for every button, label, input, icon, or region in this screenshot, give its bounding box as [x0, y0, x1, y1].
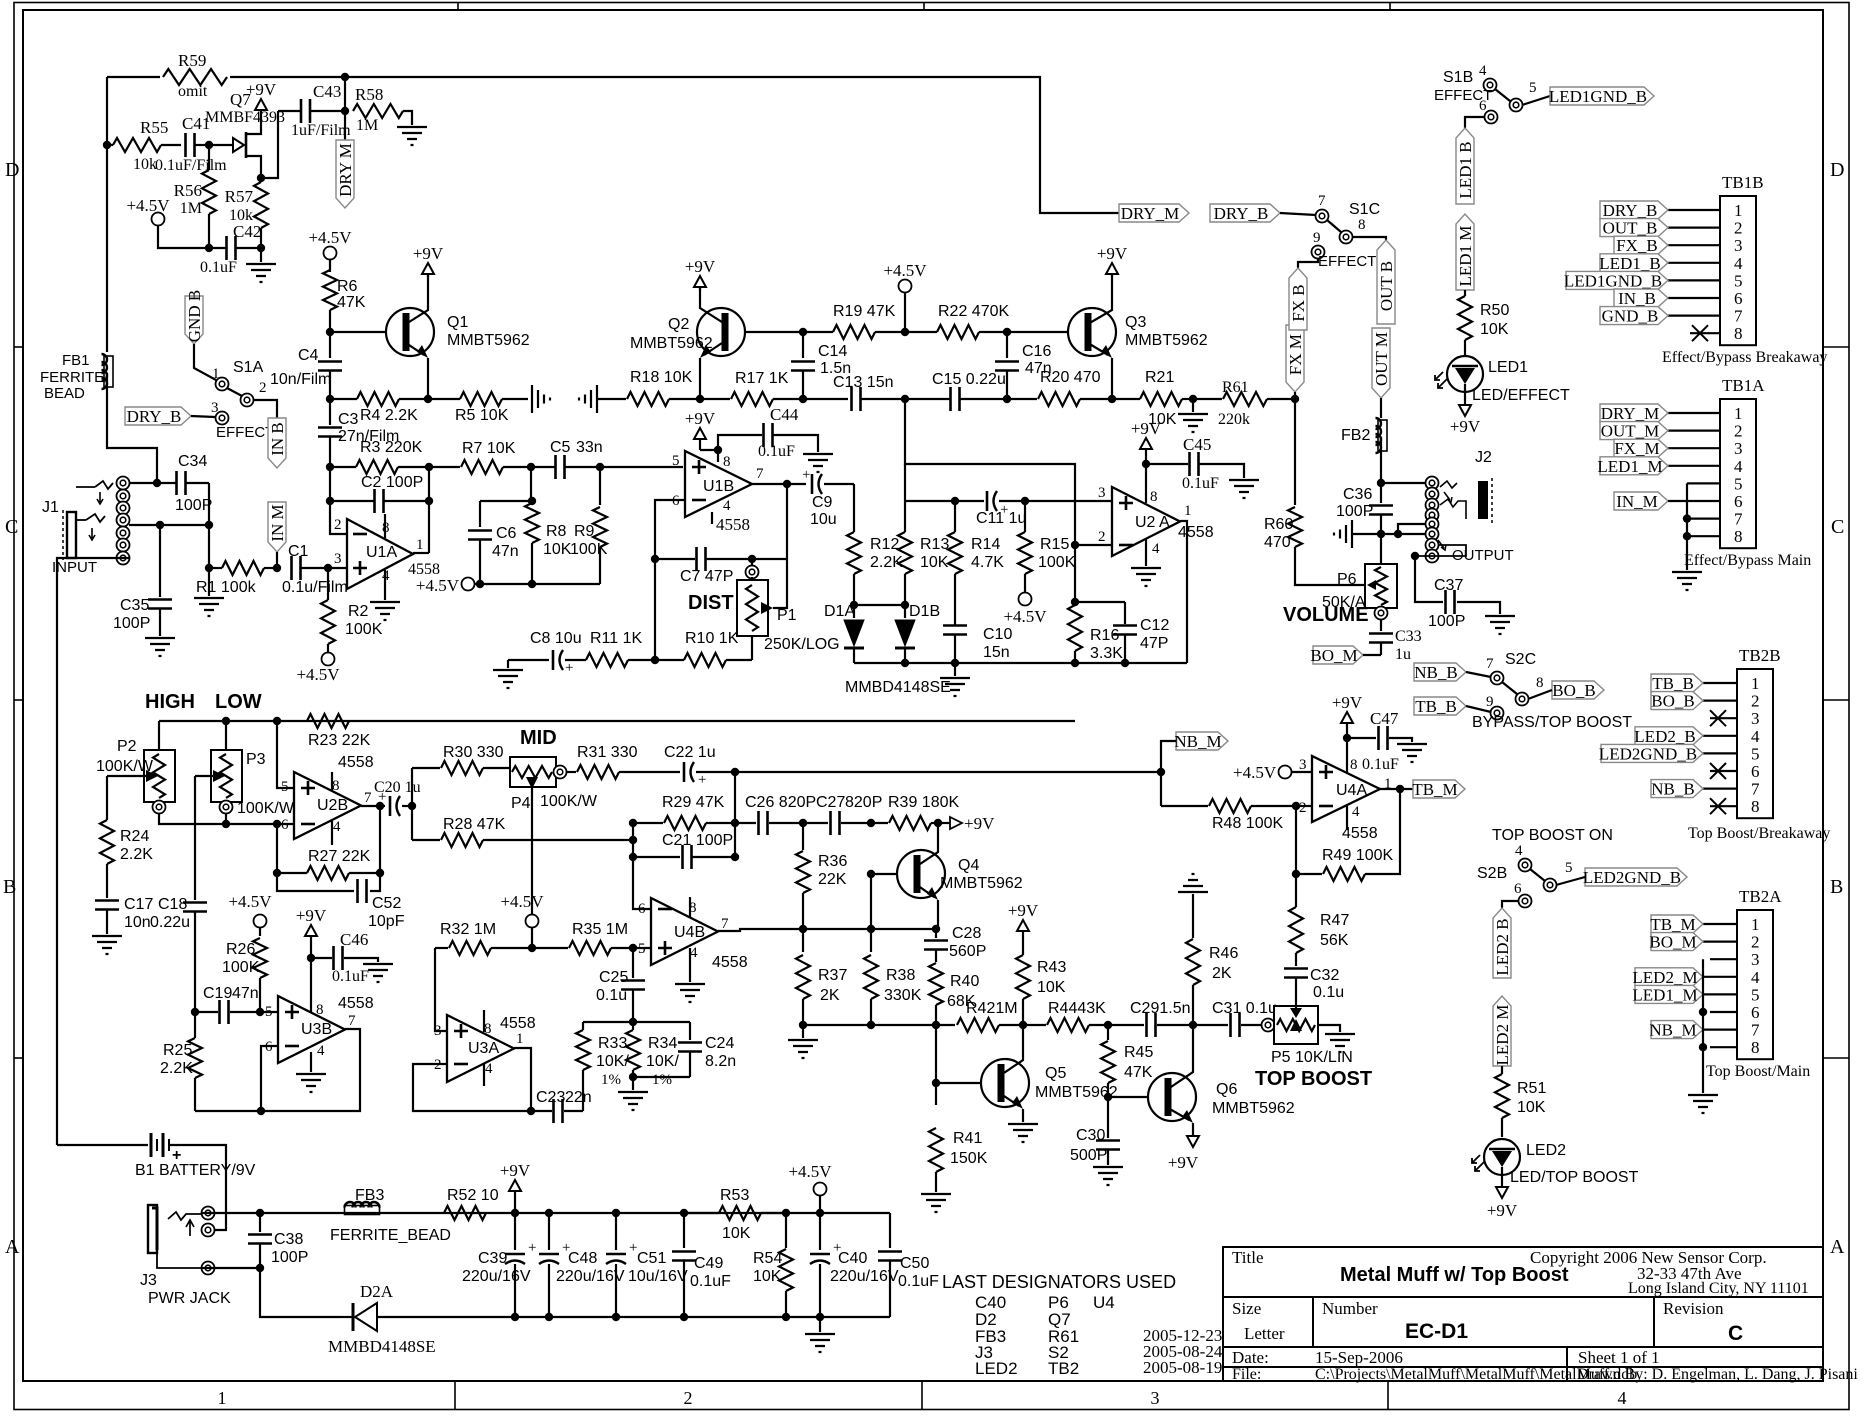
svg-text:R4 2.2K: R4 2.2K	[360, 407, 418, 424]
capacitor C42	[209, 247, 226, 249]
potentiometer P5 TOP BOOST	[1262, 1019, 1275, 1032]
svg-text:C30: C30	[1076, 1127, 1105, 1144]
capacitor C2	[375, 489, 384, 513]
svg-text:D1B: D1B	[909, 603, 940, 620]
svg-text:P6: P6	[1337, 571, 1357, 588]
LED LED2	[1484, 1139, 1520, 1175]
jack J2 contacts	[1426, 477, 1439, 490]
no-connect X TB1B pin8	[1692, 325, 1708, 341]
R28 column to pin6	[633, 823, 651, 909]
svg-text:FX M: FX M	[1286, 334, 1305, 375]
resistor R31	[566, 771, 576, 773]
svg-text:S1A: S1A	[233, 359, 264, 376]
wire J1 tip to C34 node	[129, 482, 157, 484]
svg-text:2.2K: 2.2K	[160, 1060, 193, 1077]
svg-text:DRY_M: DRY_M	[1121, 204, 1180, 223]
junction C26-C27-R36	[799, 819, 807, 827]
svg-text:TB1B: TB1B	[1722, 173, 1764, 192]
junction R34 bottom ground	[629, 1073, 637, 1081]
capacitor C40 electrolytic	[819, 1213, 821, 1250]
net flag LED2_M vertical	[1493, 996, 1511, 1066]
svg-text:C45: C45	[1183, 435, 1211, 454]
svg-text:LED1: LED1	[1488, 359, 1528, 376]
junction R55 left	[103, 141, 111, 149]
svg-text:R14: R14	[971, 536, 1000, 553]
svg-text:R11 1K: R11 1K	[590, 630, 643, 647]
svg-text:C20 1u: C20 1u	[374, 779, 421, 796]
svg-text:FB2: FB2	[1341, 427, 1370, 444]
power +4.5V below R2	[322, 653, 335, 666]
svg-text:LED1 M: LED1 M	[1456, 226, 1475, 287]
svg-text:4: 4	[1618, 1388, 1627, 1408]
svg-text:R3 220K: R3 220K	[360, 439, 423, 456]
capacitor C46	[311, 957, 332, 959]
svg-text:C35: C35	[120, 597, 149, 614]
junction C29-C31-R46-Q6	[1189, 1021, 1197, 1029]
svg-text:C37: C37	[1434, 577, 1463, 594]
wire to R30 and R28 rows	[411, 768, 413, 840]
wire J1 sleeve to battery rail	[57, 558, 129, 1145]
ferrite bead FB3	[345, 1202, 380, 1208]
junction R10-R11-C7 column	[651, 656, 659, 664]
svg-text:Revision: Revision	[1663, 1299, 1724, 1318]
svg-text:5: 5	[281, 779, 289, 795]
power +4.5V at R56	[152, 213, 165, 226]
resistor R56	[208, 145, 210, 170]
U4A output wire to TB_M	[1380, 788, 1413, 790]
svg-text:1: 1	[1734, 201, 1743, 220]
svg-text:R39 180K: R39 180K	[888, 794, 959, 811]
svg-text:Drawn By: D. Engelman, L. Dan: Drawn By: D. Engelman, L. Dang, J. Pisan…	[1577, 1366, 1858, 1383]
junction U2B out	[376, 802, 384, 810]
U4A pin4 stub	[1346, 806, 1348, 830]
capacitor C29	[1108, 1024, 1144, 1026]
svg-text:8: 8	[1734, 527, 1743, 546]
svg-text:C19: C19	[203, 985, 232, 1002]
svg-text:LED2: LED2	[1526, 1142, 1566, 1159]
svg-text:R26: R26	[226, 941, 255, 958]
junctions on +9V rail	[511, 1209, 519, 1217]
svg-text:1%: 1%	[601, 1072, 621, 1088]
resistor R24	[106, 776, 108, 820]
svg-text:5: 5	[1734, 271, 1743, 290]
svg-text:6: 6	[1751, 1003, 1760, 1022]
svg-text:+4.5V: +4.5V	[883, 261, 927, 280]
junction FB1-J1-C34	[153, 479, 161, 487]
capacitor C14	[802, 332, 804, 358]
net flag NB_M	[1176, 732, 1228, 750]
svg-text:R53: R53	[720, 1187, 749, 1204]
svg-text:+9V: +9V	[1487, 1201, 1518, 1220]
svg-text:C33: C33	[1395, 628, 1422, 645]
net flag LED1_B at TB1B	[1600, 254, 1668, 272]
svg-text:Top Boost/Main: Top Boost/Main	[1706, 1063, 1810, 1080]
net flag BO_B at TB2B	[1651, 692, 1703, 710]
ground TB1A bus	[1672, 572, 1702, 590]
svg-text:6: 6	[1751, 762, 1760, 781]
svg-text:R57: R57	[225, 187, 254, 206]
svg-text:Letter: Letter	[1244, 1324, 1285, 1343]
capacitor C28	[935, 929, 937, 938]
svg-text:R52 10: R52 10	[447, 1187, 499, 1204]
svg-text:7: 7	[721, 916, 729, 932]
svg-text:FB1: FB1	[62, 352, 90, 369]
svg-text:R21: R21	[1145, 369, 1174, 386]
net flag BO_M at TB2A	[1651, 933, 1703, 951]
junction C4-R4	[326, 395, 334, 403]
svg-text:HIGH: HIGH	[145, 691, 195, 713]
resistor R41	[935, 1025, 937, 1105]
ground below Q5	[1008, 1124, 1038, 1142]
junction C1-R2-U1A pin3	[324, 564, 332, 572]
transistor Q5 MMBT5962	[981, 1059, 1029, 1107]
U3A pin8 stub	[483, 1010, 485, 1032]
svg-text:FX_M: FX_M	[1614, 439, 1659, 458]
capacitor C32	[1284, 969, 1308, 978]
svg-text:DRY_B: DRY_B	[1603, 201, 1658, 220]
svg-text:R1 100k: R1 100k	[196, 579, 257, 596]
svg-text:470: 470	[1264, 534, 1291, 551]
svg-text:7: 7	[348, 1013, 356, 1029]
wire LED1_M to R50	[1464, 290, 1466, 296]
net flag GND_B	[185, 296, 203, 344]
svg-text:R6: R6	[337, 278, 358, 295]
svg-text:2K: 2K	[1212, 965, 1232, 982]
svg-text:Metal Muff w/ Top Boost: Metal Muff w/ Top Boost	[1340, 1264, 1569, 1286]
connector TB2A	[1737, 910, 1773, 1059]
svg-text:0.1uF/Film: 0.1uF/Film	[155, 157, 227, 174]
resistor R22	[937, 325, 979, 339]
capacitor C45	[1146, 463, 1188, 465]
svg-text:S2B: S2B	[1477, 865, 1507, 882]
resistor R1	[209, 567, 222, 569]
resistor R21	[1112, 398, 1140, 400]
svg-text:10k: 10k	[133, 156, 157, 173]
junction R14 top	[951, 497, 959, 505]
svg-text:220u/16V: 220u/16V	[830, 1268, 899, 1285]
svg-text:10K: 10K	[1480, 321, 1509, 338]
wire DRY_B to pin3	[191, 416, 215, 417]
wire R58 to ground	[403, 111, 412, 125]
wire C9 to R12	[853, 484, 855, 532]
junction Q1 emitter-R4-R5	[424, 395, 432, 403]
wire NB_M main row	[735, 771, 1161, 773]
wire Q2 base row	[745, 331, 833, 333]
wire U1A output to C2 node	[413, 552, 429, 554]
svg-text:2: 2	[1751, 692, 1760, 711]
resistor R57	[254, 182, 268, 228]
svg-text:+9V: +9V	[413, 244, 444, 263]
svg-text:2: 2	[259, 380, 267, 396]
zone ticks right	[1823, 346, 1849, 348]
svg-text:1: 1	[1751, 674, 1760, 693]
svg-text:C18: C18	[158, 896, 187, 913]
ground rail bottom	[260, 1268, 340, 1317]
resistor R38	[870, 929, 872, 952]
svg-text:0.22u: 0.22u	[150, 914, 190, 931]
svg-text:R56: R56	[174, 181, 202, 200]
resistor R17	[700, 398, 730, 400]
U2A pin2 junction	[1071, 541, 1079, 549]
svg-text:D2A: D2A	[360, 1282, 394, 1301]
svg-text:LED1_B: LED1_B	[1599, 254, 1660, 273]
svg-text:OUT_B: OUT_B	[1603, 219, 1658, 238]
resistor R15	[1024, 501, 1026, 532]
op-amp U4B	[651, 898, 718, 965]
capacitor C37	[1446, 590, 1455, 614]
svg-text:8: 8	[316, 1002, 324, 1018]
resistor R5	[428, 398, 460, 400]
svg-text:C13 15n: C13 15n	[833, 374, 894, 391]
svg-text:1u: 1u	[1395, 646, 1411, 663]
svg-text:1: 1	[416, 537, 424, 553]
svg-text:+4.5V: +4.5V	[788, 1162, 832, 1181]
J3 switch squiggle	[168, 1212, 202, 1220]
svg-text:7: 7	[1751, 780, 1760, 799]
op-amp U1A	[347, 519, 413, 589]
net flag DRY_M at TB1A	[1600, 404, 1668, 422]
diode D2A	[355, 1303, 377, 1331]
svg-text:+9V: +9V	[1168, 1153, 1199, 1172]
svg-text:LED1GND_B: LED1GND_B	[1564, 271, 1662, 290]
svg-text:EFFECT: EFFECT	[216, 424, 274, 441]
svg-text:C34: C34	[178, 453, 207, 470]
capacitor C18 column from P3 wiper	[194, 776, 196, 900]
svg-text:C9: C9	[812, 494, 833, 511]
potentiometer P1 DIST	[746, 566, 759, 579]
resistor R6	[323, 270, 337, 310]
power +9V at Q3	[1111, 274, 1113, 277]
svg-text:8: 8	[1751, 797, 1760, 816]
svg-text:C7 47P: C7 47P	[680, 568, 733, 585]
zone ticks top	[457, 3, 459, 11]
svg-text:J3: J3	[140, 1272, 157, 1289]
svg-text:2: 2	[334, 517, 342, 533]
svg-text:0.1uF: 0.1uF	[1362, 756, 1399, 773]
svg-text:LED2GND_B: LED2GND_B	[1583, 868, 1681, 887]
svg-text:FX B: FX B	[1289, 284, 1308, 321]
net flag LED1GND_B	[1550, 87, 1654, 105]
svg-text:TB_B: TB_B	[1415, 697, 1457, 716]
capacitor C11 electrolytic	[986, 491, 989, 511]
potentiometer P2 HIGH	[158, 721, 160, 750]
U3A feedback loop	[413, 1064, 531, 1111]
net flag LED1_B vertical	[1456, 128, 1474, 204]
svg-text:C: C	[1831, 516, 1844, 538]
resistor R61	[1193, 398, 1222, 400]
junction C2 right	[425, 497, 433, 505]
svg-text:R34: R34	[648, 1035, 677, 1052]
svg-text:R25: R25	[163, 1042, 192, 1059]
svg-text:0.1uF: 0.1uF	[332, 968, 369, 985]
svg-text:INPUT: INPUT	[52, 559, 97, 576]
wire C2 feedback row	[329, 467, 331, 501]
svg-text:3: 3	[1098, 485, 1106, 501]
junction C15-C16-R20	[1003, 395, 1011, 403]
net flag FX_M vertical	[1286, 325, 1304, 392]
svg-text:4: 4	[1734, 457, 1743, 476]
svg-text:P3: P3	[246, 751, 266, 768]
junction C27-R39	[867, 819, 875, 827]
svg-text:R15: R15	[1040, 536, 1069, 553]
resistor R10	[684, 653, 726, 667]
wire LED2_M to R51	[1501, 1066, 1503, 1074]
svg-text:2: 2	[1734, 219, 1743, 238]
svg-text:8: 8	[1150, 489, 1158, 505]
svg-text:LED/EFFECT: LED/EFFECT	[1472, 387, 1570, 404]
op-amp U3B	[260, 1011, 278, 1013]
net flag OUT_B vertical	[1377, 240, 1395, 324]
svg-text:S2C: S2C	[1505, 651, 1536, 668]
svg-text:5: 5	[265, 1004, 273, 1020]
svg-text:LED2 M: LED2 M	[1493, 1005, 1512, 1066]
capacitor C10	[943, 626, 967, 635]
resistor R48	[1161, 805, 1208, 807]
svg-text:7: 7	[1734, 307, 1743, 326]
svg-text:C27: C27	[816, 794, 845, 811]
ground at C46	[363, 964, 393, 982]
svg-text:Q4: Q4	[958, 857, 979, 874]
junction R17-C13	[799, 395, 807, 403]
svg-text:100K: 100K	[345, 621, 383, 638]
svg-text:TB_B: TB_B	[1652, 674, 1694, 693]
svg-text:100P: 100P	[175, 497, 212, 514]
svg-text:3: 3	[1734, 236, 1743, 255]
junction C20 right	[408, 802, 416, 810]
wire C11 row	[905, 500, 984, 502]
svg-text:S1B: S1B	[1443, 69, 1473, 86]
svg-text:U2B: U2B	[317, 797, 348, 814]
capacitor C27	[803, 822, 828, 824]
wire J1 ring row	[129, 524, 209, 526]
wire C13C15 node down to C11 row	[905, 399, 1075, 545]
wire P4 wiper down	[531, 787, 533, 948]
svg-text:6: 6	[638, 901, 646, 917]
wire R8 top from C5 node	[530, 467, 532, 501]
capacitor C49	[683, 1213, 685, 1248]
svg-text:R48 100K: R48 100K	[1212, 815, 1283, 832]
svg-text:1uF/Film: 1uF/Film	[291, 122, 351, 139]
svg-text:LED/TOP BOOST: LED/TOP BOOST	[1510, 1169, 1639, 1186]
svg-text:File:: File:	[1232, 1366, 1261, 1383]
svg-text:4558: 4558	[500, 1015, 536, 1032]
svg-text:NB_B: NB_B	[1651, 780, 1694, 799]
net flag GND_B at TB1B	[1600, 307, 1668, 325]
svg-text:4.7K: 4.7K	[971, 554, 1004, 571]
svg-text:8: 8	[484, 1021, 492, 1037]
resistor R53	[719, 1206, 761, 1220]
svg-text:MMBT5962: MMBT5962	[1125, 332, 1208, 349]
svg-text:U2 A: U2 A	[1135, 514, 1170, 531]
svg-text:MID: MID	[520, 727, 557, 749]
capacitor C16	[1006, 332, 1008, 358]
power jack J3	[148, 1205, 157, 1253]
svg-text:LED2 B: LED2 B	[1493, 918, 1512, 975]
svg-text:220u/16V: 220u/16V	[556, 1268, 625, 1285]
svg-text:0.1uF: 0.1uF	[758, 443, 795, 460]
resistor R39	[871, 822, 888, 824]
svg-text:5: 5	[1734, 474, 1743, 493]
wire battery to J3	[169, 1145, 226, 1230]
power +9V at Q1	[427, 274, 429, 277]
svg-text:EC-D1: EC-D1	[1405, 1320, 1468, 1343]
svg-text:7: 7	[756, 466, 764, 482]
svg-text:9: 9	[1313, 230, 1321, 246]
svg-text:8: 8	[723, 454, 731, 470]
svg-text:2005-08-19: 2005-08-19	[1143, 1358, 1222, 1377]
power +4.5V above R6	[324, 247, 337, 260]
svg-text:100K/W: 100K/W	[96, 758, 154, 775]
junction D1A top	[850, 601, 858, 609]
svg-text:10K/: 10K/	[596, 1053, 629, 1070]
svg-text:J2: J2	[1475, 449, 1492, 466]
ground below C30	[1093, 1167, 1123, 1185]
svg-text:C31 0.1u: C31 0.1u	[1212, 1000, 1277, 1017]
svg-text:R10 1K: R10 1K	[685, 630, 739, 647]
junction Q3 emitter-R21	[1108, 395, 1116, 403]
svg-text:R51: R51	[1517, 1080, 1546, 1097]
svg-text:10K: 10K	[543, 541, 572, 558]
svg-text:LOW: LOW	[215, 691, 262, 713]
capacitor C36	[1380, 483, 1382, 503]
svg-text:3: 3	[1751, 950, 1760, 969]
wire GND_B to S1A pin 1	[194, 344, 216, 380]
junction R1 left	[205, 564, 213, 572]
svg-text:10K/: 10K/	[646, 1053, 679, 1070]
resistor R51	[1495, 1074, 1509, 1118]
svg-text:7: 7	[1486, 656, 1494, 672]
net flag TB_M	[1413, 780, 1465, 798]
net flag IN_M	[268, 502, 286, 552]
resistor R13	[898, 532, 912, 574]
svg-text:U1B: U1B	[703, 478, 734, 495]
wire R32 R35 row	[435, 947, 448, 949]
svg-text:R29 47K: R29 47K	[662, 794, 725, 811]
svg-text:FB3: FB3	[355, 1187, 384, 1204]
svg-text:R9: R9	[574, 523, 595, 540]
svg-text:150K: 150K	[950, 1150, 988, 1167]
U3A pin4 stub	[483, 1064, 485, 1086]
svg-text:4: 4	[1152, 541, 1160, 557]
svg-text:J1: J1	[42, 499, 59, 516]
capacitor C9 electrolytic	[787, 483, 806, 485]
op-amp U2B	[294, 772, 361, 839]
svg-text:4: 4	[690, 945, 698, 961]
resistor R2	[327, 568, 329, 600]
U4B pin4 stub ground	[689, 948, 691, 982]
wire S1C pin9 to FX_B	[1298, 258, 1318, 268]
svg-text:7: 7	[1751, 1021, 1760, 1040]
ground at R21-R61	[1192, 399, 1194, 412]
svg-text:C21 100P: C21 100P	[662, 832, 733, 849]
svg-text:+9V: +9V	[1450, 417, 1481, 436]
svg-text:TOP BOOST ON: TOP BOOST ON	[1492, 827, 1613, 844]
svg-text:Effect/Bypass Main: Effect/Bypass Main	[1684, 552, 1811, 569]
junction base-C14	[799, 328, 807, 336]
capacitor C22 electrolytic	[683, 762, 686, 782]
svg-text:15-Sep-2006: 15-Sep-2006	[1315, 1348, 1403, 1367]
svg-text:+4.5V: +4.5V	[126, 196, 170, 215]
svg-text:+: +	[698, 772, 706, 788]
transistor Q6 MMBT5962	[1148, 1073, 1196, 1121]
net flag TB_B at TB2B	[1651, 674, 1703, 692]
wire S1B pin5 to LED1GND_B	[1522, 96, 1550, 105]
svg-text:22K: 22K	[818, 871, 847, 888]
svg-text:2: 2	[1751, 933, 1760, 952]
svg-text:LED2GND_B: LED2GND_B	[1599, 744, 1697, 763]
svg-text:0.1u: 0.1u	[1313, 984, 1344, 1001]
svg-text:R18 10K: R18 10K	[630, 369, 693, 386]
